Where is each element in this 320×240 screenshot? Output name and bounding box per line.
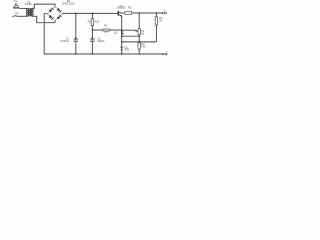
- svg-text:S1: S1: [15, 11, 19, 15]
- svg-text:R2: R2: [104, 23, 108, 27]
- svg-text:–: –: [166, 49, 168, 53]
- svg-text:220uF: 220uF: [97, 39, 105, 43]
- svg-text:Q2: Q2: [114, 30, 118, 34]
- svg-text:B40C1500: B40C1500: [62, 1, 75, 5]
- svg-text:470: 470: [141, 45, 146, 49]
- svg-text:5k6: 5k6: [104, 30, 109, 34]
- svg-text:+: +: [163, 9, 165, 13]
- svg-text:R1: R1: [88, 19, 92, 23]
- svg-text:6V2: 6V2: [125, 48, 130, 52]
- svg-text:1A/8V: 1A/8V: [25, 2, 32, 6]
- svg-text:R5: R5: [128, 6, 132, 10]
- svg-text:4700uF: 4700uF: [60, 39, 69, 43]
- svg-text:2N3055: 2N3055: [117, 6, 127, 10]
- svg-text:820: 820: [95, 19, 100, 23]
